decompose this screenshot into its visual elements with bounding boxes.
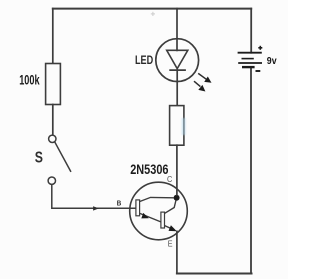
battery BT1 minus marker	[256, 70, 261, 72]
LED anode triangle	[167, 50, 188, 68]
junction dot collector node	[174, 195, 180, 201]
LED cathode bar	[170, 69, 185, 71]
wire R2 to collector node	[176, 145, 178, 195]
Q1 second stage emitter wire with arrow	[165, 225, 177, 231]
blue highlight artifact on R2	[182, 118, 186, 135]
battery BT1 plate long 1	[238, 52, 262, 54]
wire right vertical battery negative to bottom rail	[250, 68, 252, 274]
battery BT1 plus marker	[258, 46, 262, 50]
svg-text:100k: 100k	[19, 72, 40, 87]
battery BT1 plate short 1	[242, 58, 254, 60]
svg-text:B: B	[117, 199, 122, 208]
current direction arrow on base wire	[93, 206, 99, 210]
svg-text:9v: 9v	[267, 56, 277, 67]
wire switch to base node	[52, 185, 136, 209]
faint plus artifact on top rail	[151, 12, 155, 16]
wire LED to R2	[176, 70, 178, 106]
wire left vertical (top rail to R1)	[52, 9, 54, 64]
Q1 first stage emitter wire with arrow	[140, 213, 161, 222]
Q1 first stage base bar	[136, 200, 140, 216]
LED D1 envelope circle	[156, 39, 199, 82]
Q1 first stage collector wire to node	[140, 197, 174, 201]
wire R1 to switch	[52, 105, 54, 136]
wire emitter to bottom rail	[176, 231, 178, 273]
switch S bottom contact	[48, 177, 55, 184]
Q1 second stage collector wire to node	[165, 201, 176, 214]
resistor R2 body	[170, 106, 184, 146]
svg-text:S: S	[35, 149, 43, 166]
resistor R1 body	[46, 64, 61, 105]
battery BT1 plate short 2	[242, 66, 255, 68]
wire right vertical top rail to battery positive	[250, 9, 252, 53]
Q1 second stage base bar	[161, 212, 165, 228]
LED light emission arrow 2	[194, 81, 205, 91]
svg-text:2N5306: 2N5306	[130, 162, 169, 177]
battery BT1 plate long 2	[238, 62, 262, 64]
svg-text:LED: LED	[135, 55, 153, 67]
transistor Q1 2N5306 envelope circle	[130, 182, 188, 240]
LED light emission arrow 1	[198, 73, 211, 82]
switch S top contact	[49, 135, 56, 142]
wire top rail	[53, 8, 251, 10]
wire top rail to LED	[176, 9, 178, 51]
svg-text:E: E	[168, 240, 173, 249]
wire bottom rail	[177, 273, 252, 275]
switch S lever (open)	[55, 142, 71, 171]
